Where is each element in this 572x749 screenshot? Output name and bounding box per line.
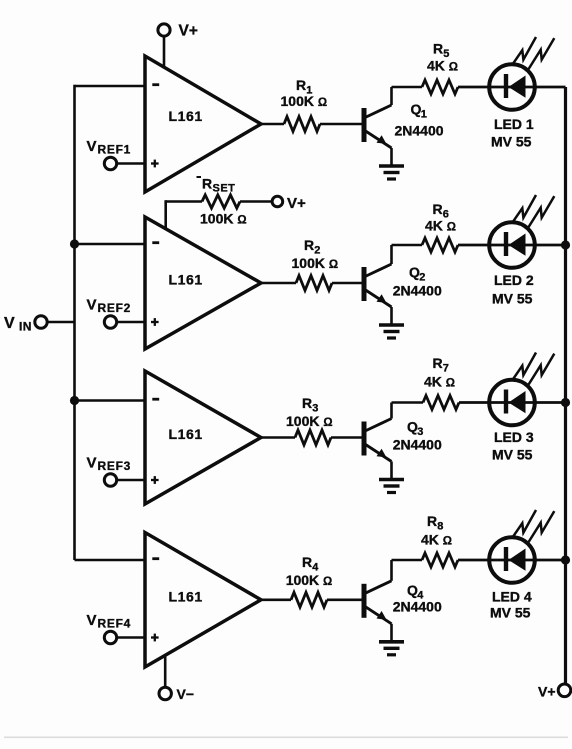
- svg-text:LED 2: LED 2: [494, 272, 534, 288]
- scan artifact faint line at bottom: [4, 737, 568, 739]
- svg-text:L161: L161: [169, 426, 203, 442]
- junction on right rail at LED3 row: [561, 398, 570, 407]
- op-amp U4 L161 comparator: [145, 533, 261, 668]
- svg-text:REF2: REF2: [98, 301, 131, 315]
- LED2 diode triangle: [509, 234, 526, 256]
- wire VREF4 terminal to + input of U4: [117, 636, 145, 638]
- svg-text:MV 55: MV 55: [492, 447, 533, 463]
- wire VIN terminal to bus: [47, 321, 74, 324]
- svg-text:L161: L161: [169, 272, 203, 288]
- svg-text:R: R: [433, 201, 443, 217]
- LED4 MV55 circle: [489, 537, 535, 583]
- svg-text:MV 55: MV 55: [492, 291, 533, 307]
- wire U2 top edge up to RSET: [164, 200, 167, 229]
- wire resistor R6 to LED2 and right rail: [458, 244, 566, 247]
- resistor R2 100K: [296, 276, 332, 291]
- wire resistor R8 to LED4 and right rail: [458, 559, 566, 562]
- transistor Q1 emitter lead with arrow: [364, 130, 392, 148]
- wire Q2 collector to resistor R6: [392, 244, 423, 247]
- node VREF1 input terminal: [104, 157, 116, 169]
- label RSET: [197, 176, 202, 178]
- op-amp U2 L161 comparator: [145, 217, 261, 349]
- transistor Q4 collector lead: [364, 581, 392, 594]
- pin - inverting input of U2: [152, 241, 159, 244]
- node VIN input terminal: [35, 316, 47, 328]
- svg-text:MV 55: MV 55: [491, 134, 532, 150]
- svg-text:LED 1: LED 1: [494, 116, 534, 132]
- wire resistor R7 to LED3 and right rail: [459, 401, 566, 404]
- wire bus to inverting input of op-amp U4: [75, 559, 146, 562]
- svg-text:R: R: [202, 176, 212, 192]
- wire resistor R5 to LED1 and right rail: [458, 86, 566, 89]
- ground symbol below Q2: [379, 323, 404, 327]
- op-amp U1 L161 comparator: [145, 56, 261, 192]
- wire bus to inverting input of op-amp U1: [75, 85, 146, 88]
- svg-text:R: R: [427, 513, 437, 529]
- wire U4 output to resistor R4: [259, 598, 291, 601]
- junction on VIN bus at op-amp U2: [70, 239, 79, 248]
- LED3 cathode bar: [504, 390, 508, 414]
- svg-text:1: 1: [421, 109, 427, 121]
- wire resistor R4 to base of Q4: [327, 598, 362, 601]
- svg-text:V: V: [87, 138, 97, 155]
- svg-text:R: R: [433, 41, 443, 57]
- svg-text:2N4400: 2N4400: [395, 123, 444, 139]
- svg-text:R: R: [302, 395, 312, 411]
- wire U3 output to resistor R3: [259, 436, 295, 439]
- wire VREF2 terminal to + input of U2: [117, 321, 145, 323]
- svg-text:L161: L161: [169, 589, 203, 605]
- svg-text:2N4400: 2N4400: [393, 283, 442, 299]
- wire bus to inverting input of op-amp U2: [75, 243, 146, 246]
- svg-text:2N4400: 2N4400: [393, 599, 442, 615]
- svg-text:V+: V+: [179, 23, 198, 40]
- svg-text:R: R: [304, 237, 314, 253]
- node VREF4 input terminal: [104, 631, 116, 643]
- svg-text:V: V: [87, 297, 97, 314]
- node VREF3 input terminal: [104, 474, 116, 486]
- wire resistor R1 to base of Q1: [320, 123, 362, 126]
- node V+ terminal at RSET: [272, 196, 283, 207]
- junction on right rail at LED2 row: [561, 240, 570, 249]
- svg-text:L161: L161: [169, 108, 203, 124]
- svg-text:IN: IN: [19, 320, 32, 334]
- ground symbol below Q1: [379, 164, 404, 168]
- LED1 light emission arrows: [513, 37, 536, 64]
- svg-text:R: R: [433, 355, 443, 371]
- svg-text:R: R: [296, 77, 306, 93]
- pin - inverting input of U4: [152, 557, 159, 560]
- op-amp U3 L161 comparator: [145, 371, 261, 504]
- wire bus to inverting input of op-amp U3: [75, 399, 146, 402]
- junction on VIN bus at op-amp U3: [70, 396, 79, 405]
- transistor Q4 emitter lead with arrow: [364, 606, 392, 624]
- transistor Q3 collector lead: [364, 419, 392, 432]
- LED1 MV55 circle: [489, 64, 535, 110]
- pin + non-inverting input of U4: [151, 636, 159, 638]
- svg-text:REF4: REF4: [98, 617, 131, 631]
- svg-text:V: V: [87, 455, 97, 472]
- pin + non-inverting input of U3: [151, 479, 159, 481]
- svg-text:SET: SET: [213, 183, 236, 195]
- transistor Q2 emitter lead with arrow: [364, 289, 392, 307]
- wire resistor R3 to base of Q3: [331, 436, 362, 439]
- wire Q1 collector to resistor R5: [392, 86, 423, 89]
- wire Q4 collector to resistor R8: [392, 559, 423, 562]
- transistor Q1 collector lead: [364, 105, 392, 118]
- LED3 MV55 circle: [489, 380, 535, 426]
- wire VREF3 terminal to + input of U3: [117, 479, 145, 481]
- wire VIN vertical bus: [73, 85, 76, 560]
- node V+ bottom right terminal: [558, 684, 571, 697]
- transistor Q4 2N4400 base bar: [362, 584, 367, 618]
- wire U4 bottom edge to V- terminal: [164, 655, 167, 687]
- svg-text:R: R: [302, 554, 312, 570]
- svg-text:MV 55: MV 55: [490, 605, 531, 621]
- LED2 MV55 circle: [489, 222, 535, 268]
- resistor R1 100K: [284, 117, 320, 132]
- svg-text:LED 3: LED 3: [494, 429, 534, 445]
- wire U2 output to resistor R2: [259, 282, 296, 285]
- wire Q3 collector to resistor R7: [392, 401, 424, 404]
- LED3 diode triangle: [509, 391, 526, 413]
- svg-text:V: V: [87, 612, 97, 629]
- LED1 diode triangle: [509, 76, 526, 98]
- transistor Q3 2N4400 base bar: [362, 422, 367, 456]
- svg-text:V−: V−: [177, 686, 195, 702]
- svg-text:REF1: REF1: [98, 143, 131, 157]
- pin - inverting input of U1: [152, 83, 159, 86]
- svg-text:V+: V+: [287, 195, 306, 212]
- LED4 cathode bar: [504, 547, 508, 571]
- resistor R3 100K: [295, 430, 331, 445]
- node V+ top terminal: [158, 24, 170, 36]
- resistor R8 4K: [422, 553, 458, 567]
- node VREF2 input terminal: [104, 316, 116, 328]
- pin + non-inverting input of U1: [151, 162, 159, 164]
- resistor RSET 100K: [202, 195, 240, 208]
- resistor R5 4K: [422, 80, 458, 94]
- transistor Q1 2N4400 base bar: [362, 108, 367, 142]
- transistor Q2 collector lead: [364, 264, 392, 277]
- resistor R6 4K: [422, 238, 458, 252]
- wire VREF1 terminal to + input of U1: [117, 162, 145, 164]
- LED2 light emission arrows: [513, 195, 536, 222]
- wire corner to resistor RSET: [166, 200, 202, 203]
- LED1 cathode bar: [504, 74, 508, 98]
- node V- bottom terminal: [159, 687, 171, 699]
- svg-text:LED 4: LED 4: [492, 589, 532, 605]
- svg-text:V+: V+: [538, 684, 556, 700]
- svg-text:V: V: [4, 315, 15, 332]
- resistor R7 4K: [423, 396, 459, 410]
- resistor R4 100K: [291, 592, 327, 607]
- transistor Q3 emitter lead with arrow: [364, 444, 392, 462]
- wire resistor R2 to base of Q2: [332, 282, 362, 285]
- pin + non-inverting input of U2: [151, 321, 159, 323]
- svg-text:2N4400: 2N4400: [393, 437, 442, 453]
- LED4 light emission arrows: [513, 510, 536, 537]
- svg-text:REF3: REF3: [98, 459, 131, 473]
- pin - inverting input of U3: [152, 398, 159, 401]
- transistor Q2 2N4400 base bar: [362, 267, 367, 301]
- LED4 diode triangle: [509, 549, 526, 571]
- LED2 cathode bar: [504, 232, 508, 256]
- wire U1 output to resistor R1: [259, 123, 284, 126]
- LED3 light emission arrows: [513, 353, 536, 380]
- wire RSET to V+ terminal: [240, 200, 272, 203]
- wire V+ terminal to U1 top edge: [163, 36, 166, 68]
- ground symbol below Q3: [379, 478, 404, 482]
- ground symbol below Q4: [379, 640, 404, 644]
- junction on right rail at LED4 row: [561, 555, 570, 564]
- wire right V+ rail: [564, 87, 567, 684]
